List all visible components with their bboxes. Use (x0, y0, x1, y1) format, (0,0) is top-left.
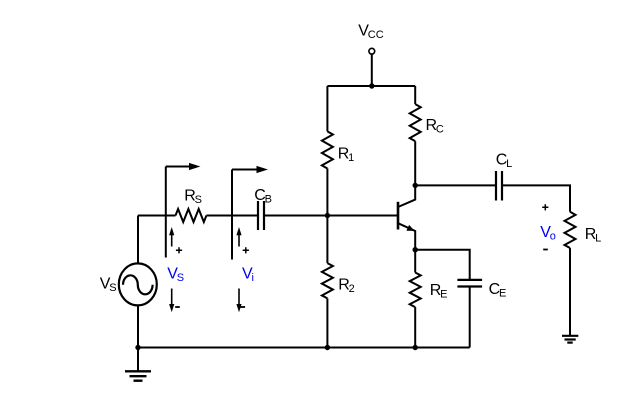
arrow VS current (166, 166, 190, 168)
wire RE top (414, 250, 416, 273)
wire R1 to base node (326, 169, 328, 264)
wire top rail (327, 85, 415, 87)
wire RE bottom (414, 307, 416, 347)
resistor RE (410, 273, 421, 308)
capacitor CE (457, 280, 482, 287)
wire RL bottom (569, 248, 571, 336)
node dot base (325, 213, 330, 218)
plus sign Vo (542, 204, 548, 210)
plus sign Vi (243, 247, 249, 253)
minus sign VS (175, 306, 180, 308)
wire CE bottom (469, 287, 471, 348)
wire input top segment (138, 215, 176, 217)
arrowhead VS current (189, 163, 200, 170)
svg-text:Vo: Vo (540, 224, 556, 243)
svg-text:CB: CB (254, 187, 272, 206)
transistor Q1 emitter arrowhead (406, 225, 414, 231)
wire bottom rail (138, 347, 470, 349)
terminal VCC circle (369, 48, 375, 54)
down arrow VS (171, 289, 173, 306)
sine wave (123, 275, 153, 294)
resistor RL (565, 212, 576, 248)
transistor Q1 collector stroke (398, 185, 415, 207)
minus sign Vi (241, 306, 246, 308)
node dot bottom left (135, 345, 140, 350)
transistor Q1 emitter stroke (398, 223, 415, 250)
wire CB to base (264, 215, 398, 217)
label VCC (100, 23, 601, 301)
node dot emitter (413, 247, 418, 252)
node dot bottom R2 (325, 345, 330, 350)
wire emitter out (415, 250, 470, 280)
plus sign VS (175, 204, 548, 307)
ground RL (562, 335, 578, 337)
svg-text:RS: RS (184, 188, 202, 207)
capacitor CL (496, 171, 502, 201)
wire VCC stub (371, 54, 373, 86)
wire CL to RL (502, 185, 570, 211)
wire source drop (137, 216, 139, 264)
resistor R1 (322, 131, 333, 168)
minus sign Vo (543, 249, 548, 251)
wire R1 top (326, 86, 328, 131)
svg-text:VS: VS (100, 276, 117, 295)
up arrow Vi (238, 234, 240, 247)
ground left (137, 348, 139, 372)
svg-text:R2: R2 (338, 277, 354, 296)
svg-text:CE: CE (489, 281, 507, 300)
source VS circle (119, 263, 157, 305)
resistor R2 (322, 263, 333, 298)
wire R2 bottom (326, 298, 328, 347)
svg-text:RE: RE (430, 282, 448, 301)
svg-text:RL: RL (585, 226, 601, 245)
transistor Q1 base bar (397, 202, 400, 230)
svg-text:RC: RC (426, 117, 444, 136)
svg-text:R1: R1 (338, 146, 354, 165)
node dot bottom RE (413, 345, 418, 350)
node dot collector (413, 183, 418, 188)
wire RS to CB (206, 215, 258, 217)
probe line Vi (231, 170, 233, 260)
svg-text:Vi: Vi (242, 266, 254, 285)
wire source to ground rail (137, 305, 139, 347)
resistor RC (410, 104, 421, 141)
probe line VS (165, 167, 167, 258)
wire collector out (415, 184, 496, 186)
up arrow VS (169, 227, 242, 312)
node dot VCC rail (369, 83, 374, 88)
svg-text:VS: VS (167, 266, 184, 285)
arrowhead Vi current (257, 166, 269, 173)
resistor RS (176, 209, 207, 222)
down arrow Vi (238, 289, 240, 306)
svg-text:VCC: VCC (358, 23, 383, 42)
arrow Vi current (232, 169, 257, 171)
svg-text:CL: CL (496, 152, 512, 171)
wire RC to collector node (414, 141, 416, 185)
wire RC top (414, 86, 416, 104)
capacitor CB (258, 201, 264, 230)
